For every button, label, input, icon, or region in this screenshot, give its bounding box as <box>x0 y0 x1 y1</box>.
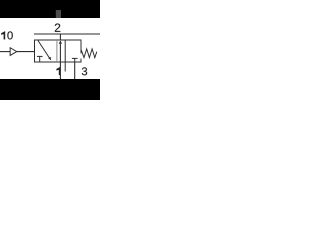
valve position divider <box>56 40 58 62</box>
spring return <box>81 49 97 58</box>
wire port 2 stub <box>59 34 61 40</box>
flow path vertical with up arrow (right box) <box>59 43 61 62</box>
pilot triangle Z (pneumatic pilot actuator) <box>10 48 17 56</box>
right edge gap at spring attach <box>80 53 82 58</box>
top black band <box>0 0 100 18</box>
background <box>0 0 100 100</box>
faint wire remnant in top band <box>56 10 61 18</box>
label 2 <box>55 23 60 31</box>
label 1 <box>56 67 60 75</box>
label 10 <box>1 31 13 39</box>
label 3 <box>82 67 87 75</box>
blocked port T (left box) <box>39 56 41 62</box>
wire mid stub <box>64 62 66 72</box>
flow path diagonal with arrow (left box) <box>38 40 50 58</box>
valve body outline <box>35 40 82 62</box>
wire port 3 stub <box>74 62 76 79</box>
wire top port 2 net <box>34 33 100 35</box>
passage line (right box) <box>64 40 66 62</box>
wire pilot line left <box>0 51 10 53</box>
wire pilot to valve <box>17 51 35 53</box>
bottom black band <box>0 79 100 100</box>
blocked port T (right box) <box>74 58 76 62</box>
wire port 1 stub <box>59 62 61 79</box>
